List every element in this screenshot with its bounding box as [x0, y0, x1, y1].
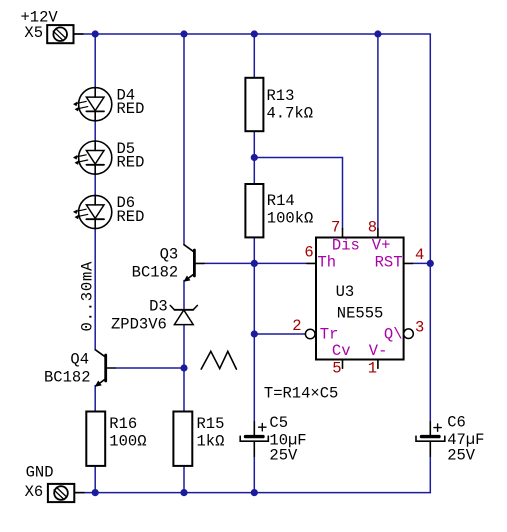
- transistor Q3: [184, 245, 204, 282]
- wire Q3 base to node: [204, 262, 254, 264]
- svg-text:GND: GND: [26, 464, 54, 482]
- svg-text:R14: R14: [267, 192, 295, 210]
- wire LED column from rail to D4: [94, 34, 96, 88]
- capacitor C5: [240, 422, 268, 457]
- LED D6: [74, 195, 112, 228]
- svg-text:6: 6: [304, 244, 313, 262]
- wire rail to R13: [253, 34, 255, 78]
- wire Q4 emitter to R16: [94, 386, 96, 412]
- svg-text:BC182: BC182: [132, 264, 179, 282]
- resistor R16: [86, 412, 105, 466]
- wire Q3 emitter to D3: [183, 281, 185, 310]
- pin stub RST: [404, 262, 413, 264]
- svg-text:C6: C6: [447, 414, 466, 432]
- pin 3 inversion bubble: [404, 329, 414, 339]
- svg-text:RED: RED: [117, 154, 145, 172]
- svg-text:ZPD3V6: ZPD3V6: [111, 316, 167, 334]
- wire R14 to C5 through Th and Tr nodes: [253, 237, 255, 427]
- svg-text:8: 8: [368, 219, 377, 237]
- svg-text:Th: Th: [318, 253, 337, 271]
- svg-text:BC182: BC182: [44, 368, 91, 386]
- wire second column rail to Q3 collector: [183, 34, 185, 245]
- junction C5 bottom rail: [251, 489, 258, 496]
- wire D4 to D5: [94, 121, 96, 142]
- svg-text:100kΩ: 100kΩ: [267, 210, 314, 228]
- wire D3 to R15 through Q4 base node: [183, 325, 185, 412]
- sawtooth waveform symbol: [201, 351, 236, 369]
- pin stub Th: [307, 262, 316, 264]
- wire C6 bottom to bottom rail: [429, 456, 431, 493]
- svg-text:4.7kΩ: 4.7kΩ: [267, 105, 314, 123]
- svg-text:Tr: Tr: [320, 325, 339, 343]
- wire R16 to bottom rail: [94, 466, 96, 493]
- connector X6 ground terminal: [48, 484, 84, 502]
- resistor R13: [245, 78, 263, 131]
- LED D4: [74, 88, 112, 121]
- pin 1 V- stub: [377, 360, 379, 369]
- wire 555 pin 4 RST to right drop: [413, 262, 431, 264]
- svg-text:3: 3: [415, 319, 424, 337]
- pin 5 Cv stub: [342, 360, 344, 369]
- junction R13/R14/pin7 node: [251, 154, 258, 161]
- svg-text:RED: RED: [117, 208, 145, 226]
- zener diode D3: [170, 305, 197, 324]
- svg-text:R16: R16: [109, 415, 137, 433]
- pin stub Dis: [342, 229, 344, 238]
- svg-text:5: 5: [332, 360, 341, 378]
- capacitor C6: [416, 422, 445, 457]
- svg-text:RST: RST: [375, 253, 403, 271]
- svg-text:1kΩ: 1kΩ: [197, 433, 225, 451]
- svg-text:25V: 25V: [269, 447, 298, 465]
- wire Q4 base to node: [115, 367, 184, 369]
- junction rail-LED column: [92, 30, 99, 37]
- junction rail-pin8: [374, 30, 381, 37]
- resistor R14: [245, 184, 263, 237]
- svg-text:0..30mA: 0..30mA: [78, 261, 96, 332]
- wire top rail +12V: [74, 33, 430, 35]
- resistor R15: [173, 412, 192, 466]
- wire Th node to 555 pin 6: [254, 262, 307, 264]
- svg-text:1: 1: [368, 360, 377, 378]
- svg-text:25V: 25V: [447, 447, 476, 465]
- svg-text:R13: R13: [267, 87, 295, 105]
- transistor Q4: [95, 350, 115, 387]
- wire rail to 555 pin 8 V+: [377, 34, 379, 229]
- LED D5: [74, 141, 112, 174]
- wire D6 to Q4 collector: [94, 228, 96, 350]
- svg-text:D3: D3: [149, 298, 168, 316]
- svg-text:T=R14×C5: T=R14×C5: [264, 385, 338, 403]
- op-amp/timer IC U3 NE555 box: [316, 238, 404, 360]
- svg-text:Q4: Q4: [70, 350, 89, 368]
- junction Q4 base node: [180, 364, 187, 371]
- svg-text:7: 7: [331, 219, 340, 237]
- pin stub V+: [377, 229, 379, 238]
- svg-text:V+: V+: [372, 237, 391, 255]
- junction RST node: [427, 260, 434, 267]
- svg-text:U3: U3: [336, 283, 355, 301]
- junction rail-Q3 column: [180, 30, 187, 37]
- wire node to 555 pin 7 Dis: [254, 158, 342, 229]
- svg-text:Dis: Dis: [332, 237, 360, 255]
- wire R15 to bottom rail: [183, 466, 185, 493]
- svg-text:R15: R15: [197, 415, 225, 433]
- junction Th node: [251, 260, 258, 267]
- svg-text:4: 4: [415, 246, 424, 264]
- svg-text:100Ω: 100Ω: [109, 433, 146, 451]
- wire C5 bottom to bottom rail: [253, 456, 255, 492]
- svg-text:V-: V-: [369, 342, 388, 360]
- svg-text:C5: C5: [269, 414, 288, 432]
- svg-text:X5: X5: [24, 24, 43, 42]
- svg-text:RED: RED: [117, 100, 145, 118]
- svg-text:X6: X6: [25, 483, 44, 501]
- junction R15 bottom rail: [180, 489, 187, 496]
- svg-text:Q\: Q\: [384, 325, 403, 343]
- svg-text:Q3: Q3: [160, 245, 179, 263]
- wire bottom rail GND: [75, 492, 430, 494]
- wire R13 to R14: [253, 131, 255, 184]
- junction R16 bottom rail: [92, 489, 99, 496]
- wire right vertical drop to RST and C6: [429, 34, 431, 422]
- svg-text:NE555: NE555: [337, 305, 384, 323]
- connector X5: [47, 25, 83, 43]
- svg-text:2: 2: [292, 317, 301, 335]
- wire Tr node to 555 pin 2: [254, 333, 304, 335]
- junction rail-R13 column: [251, 30, 258, 37]
- pin 2 inversion bubble: [305, 329, 315, 339]
- wire D5 to D6: [94, 174, 96, 195]
- svg-text:Cv: Cv: [332, 342, 351, 360]
- junction Tr node: [251, 330, 258, 337]
